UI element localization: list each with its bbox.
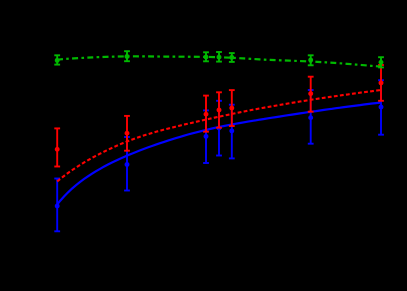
red error bar R2	[124, 116, 130, 151]
green error bar G1	[54, 55, 60, 64]
blue error bar B6	[308, 90, 314, 144]
blue error bar B1	[54, 179, 60, 232]
blue error bar B4	[216, 101, 222, 156]
green error bar G4	[216, 52, 222, 62]
blue error bar B7	[378, 80, 384, 135]
red error bar R6	[308, 77, 314, 112]
red error bar R1	[54, 128, 60, 166]
green dash-dot curve	[57, 56, 381, 66]
green error bar G2	[124, 51, 130, 61]
red error bar R7	[378, 65, 384, 101]
blue solid curve	[57, 103, 381, 205]
green error bar G5	[229, 53, 235, 62]
green error bar G6	[308, 55, 314, 65]
red dashed curve	[57, 90, 381, 181]
blue error bar B3	[203, 110, 209, 163]
blue error bar B5	[229, 105, 235, 159]
red error bar R3	[203, 96, 209, 132]
red error bar R4	[216, 92, 222, 127]
green error bar G7	[378, 57, 384, 67]
red error bar R5	[229, 90, 235, 126]
blue error bar B2	[124, 137, 130, 191]
green error bar G3	[203, 52, 209, 61]
